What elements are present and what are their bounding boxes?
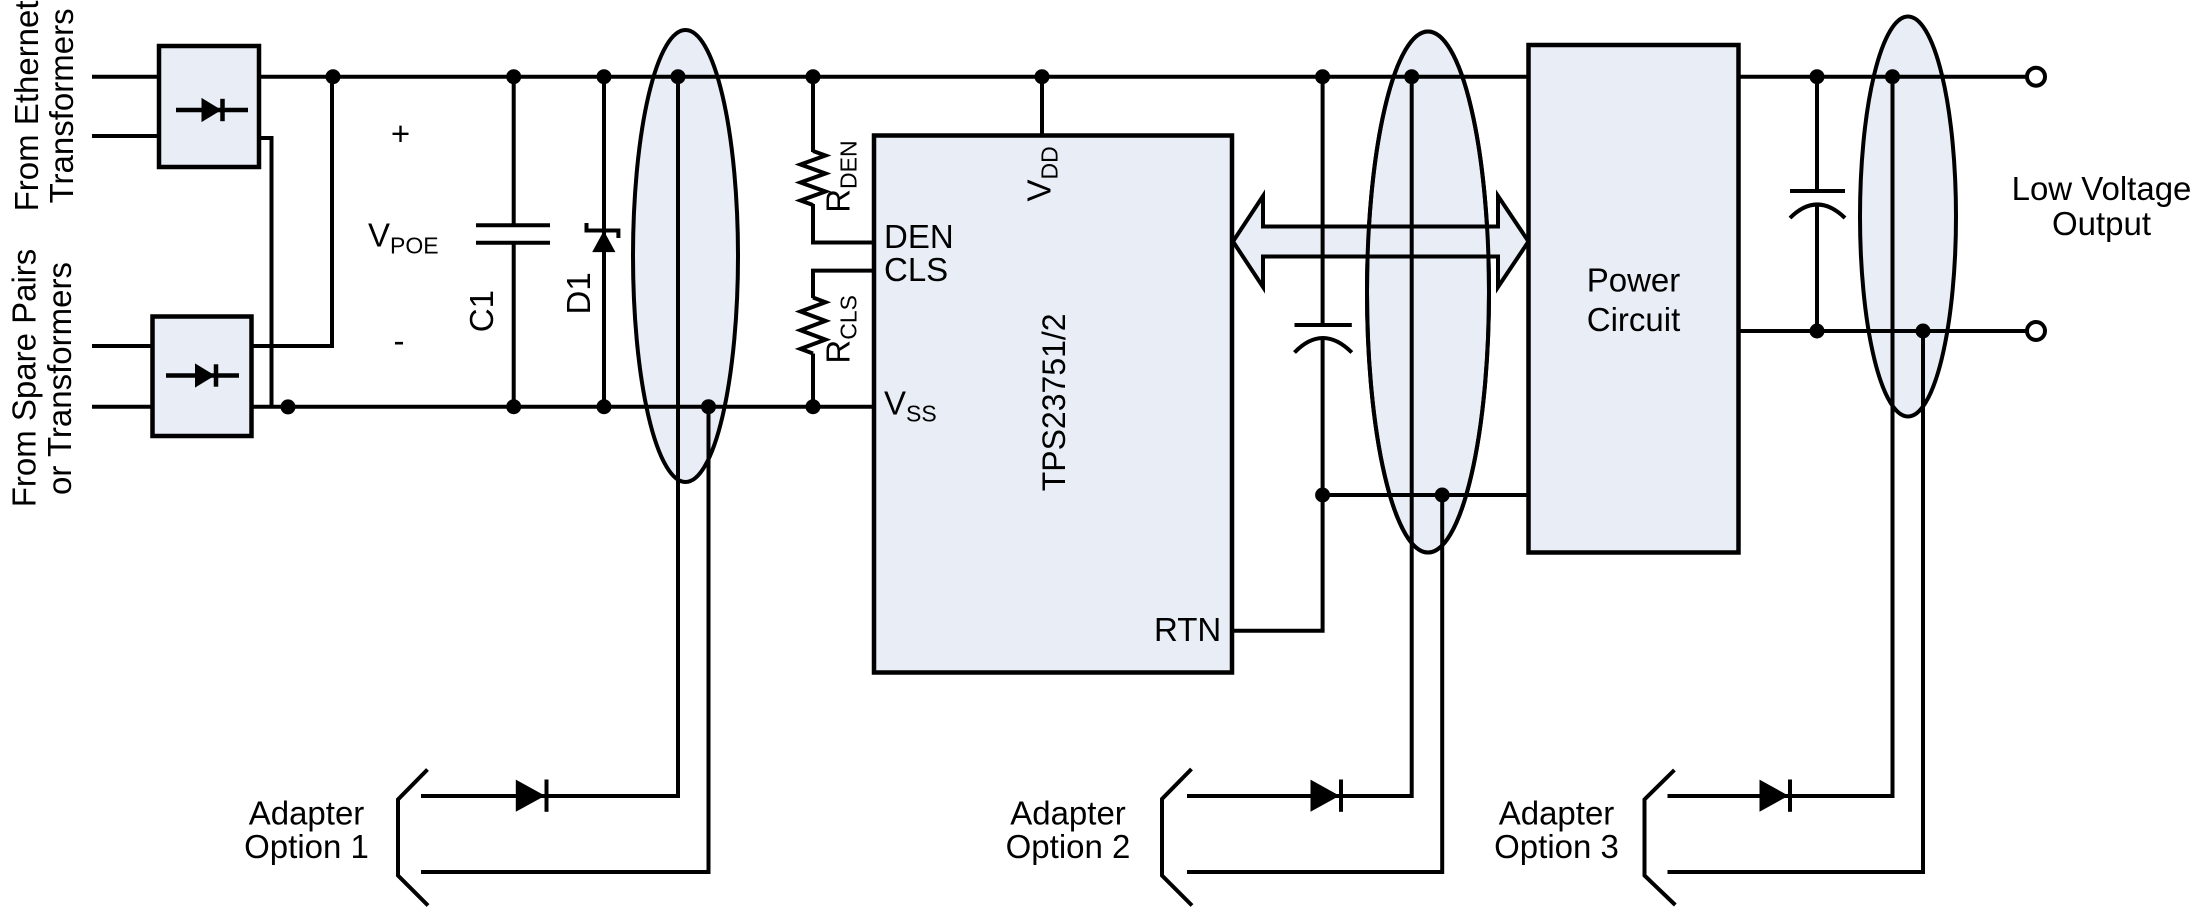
wire bottom VSS rail <box>250 405 876 409</box>
svg-text:Output: Output <box>2052 205 2151 242</box>
power circuit block <box>1529 45 1739 553</box>
junction dots output rail <box>1810 324 1931 339</box>
resistor RCLS zigzag <box>801 298 826 354</box>
wire low voltage output minus rail <box>1737 329 2027 333</box>
svg-text:DEN: DEN <box>884 218 954 255</box>
brace adapter option 1 <box>398 770 428 906</box>
wire top rail output side <box>1737 75 2027 79</box>
resistor RDEN zigzag <box>801 151 826 205</box>
wire adapter option 2 return path <box>1187 495 1442 872</box>
adapter ellipse 2 outline overlay <box>1367 32 1489 553</box>
wire adapter option 1 plus path <box>421 77 678 796</box>
svg-text:or Transformers: or Transformers <box>41 262 78 495</box>
wire spare input 1 <box>92 344 154 348</box>
bridge B2 diode symbol <box>166 364 239 386</box>
svg-text:RDEN: RDEN <box>819 140 861 212</box>
zener diode D1 symbol <box>587 223 619 252</box>
wire VDD pin <box>1040 77 1044 137</box>
svg-text:Circuit: Circuit <box>1587 301 1681 338</box>
svg-text:Option 3: Option 3 <box>1494 828 1619 865</box>
wire D1 branch <box>602 77 606 407</box>
svg-text:Power: Power <box>1587 261 1681 298</box>
diode bridge B1 <box>159 46 259 167</box>
capacitor C2 plates <box>1295 325 1352 353</box>
wire adapter option 1 return path <box>421 407 709 872</box>
bidirectional arrow <box>1233 196 1529 287</box>
svg-text:Transformers: Transformers <box>43 8 80 203</box>
label From Spare Pairs or Transformers <box>6 249 79 508</box>
junction dots bottom rail <box>281 399 821 414</box>
wire C3 bottom lead <box>1815 205 1819 332</box>
bridge B1 diode symbol <box>176 99 248 121</box>
wire CLS pin to RCLS <box>813 271 876 298</box>
wire RDEN top lead <box>811 77 815 152</box>
adapter ellipse 1 <box>633 30 738 482</box>
svg-text:Low Voltage: Low Voltage <box>2012 170 2192 207</box>
wire adapter option 3 plus path <box>1668 77 1893 796</box>
adapter ellipse 3 <box>1860 17 1956 417</box>
wire ethernet input 1 <box>92 75 160 79</box>
wire RTN return to power circuit <box>1323 493 1530 497</box>
svg-text:VPOE: VPOE <box>368 217 439 259</box>
wire C1 top lead <box>512 77 516 226</box>
svg-text:Option 1: Option 1 <box>244 828 369 865</box>
adapter 3 diode <box>1760 780 1790 812</box>
svg-text:-: - <box>394 322 405 359</box>
capacitor C1 plates <box>476 225 550 243</box>
svg-text:RTN: RTN <box>1154 611 1221 648</box>
wire bridge1 minus output down to bottom rail <box>258 138 272 407</box>
svg-text:RCLS: RCLS <box>819 295 861 364</box>
junction dots return line <box>1315 488 1450 503</box>
brace adapter option 2 <box>1162 769 1192 906</box>
svg-text:Adapter: Adapter <box>1010 795 1126 832</box>
diode bridge B2 <box>153 317 252 437</box>
wire adapter option 3 return path <box>1668 331 1924 872</box>
svg-text:Option 2: Option 2 <box>1006 828 1131 865</box>
output terminal plus <box>2027 68 2045 86</box>
wire RCLS bottom lead <box>811 354 815 407</box>
svg-text:From Spare Pairs: From Spare Pairs <box>6 249 43 508</box>
wire C3 top lead <box>1815 77 1819 191</box>
adapter 1 diode <box>516 780 546 812</box>
wire C2 top lead <box>1321 77 1325 325</box>
adapter 2 diode <box>1311 780 1341 812</box>
wire bridge2 plus output up to top rail <box>250 77 332 346</box>
svg-text:C1: C1 <box>463 290 500 332</box>
output terminal minus <box>2027 322 2045 340</box>
svg-text:CLS: CLS <box>884 251 948 288</box>
brace adapter option 3 <box>1645 770 1676 905</box>
svg-text:+: + <box>391 115 410 152</box>
svg-text:D1: D1 <box>560 272 597 314</box>
svg-text:Adapter: Adapter <box>1499 795 1615 832</box>
wire adapter option 2 plus path <box>1187 77 1412 796</box>
wire C2 bottom lead to RTN pin <box>1231 338 1323 631</box>
wire C1 bottom lead <box>512 243 516 407</box>
svg-text:From Ethernet: From Ethernet <box>8 0 45 211</box>
svg-text:TPS23751/2: TPS23751/2 <box>1036 313 1072 491</box>
adapter ellipse 2 <box>1367 32 1489 553</box>
svg-text:Adapter: Adapter <box>249 795 365 832</box>
capacitor C3 plates <box>1790 191 1845 218</box>
wire spare input 2 <box>92 405 154 409</box>
IC U1 TPS23751/2 <box>874 136 1232 673</box>
wire ethernet input 2 <box>92 134 160 138</box>
wire top rail VPOE bus <box>258 75 1530 79</box>
wire RDEN to DEN pin <box>813 204 876 243</box>
label From Ethernet Transformers <box>8 0 80 211</box>
junction dots top rail <box>326 69 1901 84</box>
